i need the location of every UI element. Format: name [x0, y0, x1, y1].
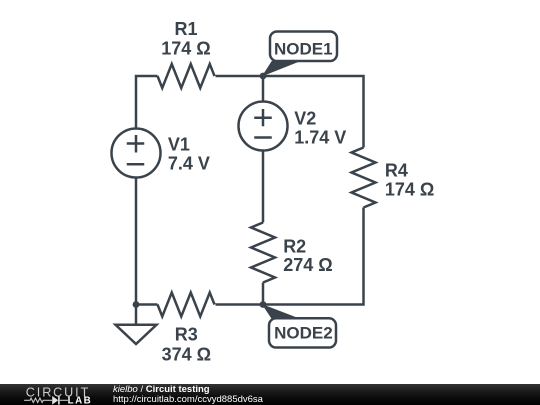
svg-text:V1: V1 — [168, 135, 190, 155]
voltage source V1 — [112, 129, 210, 178]
wire NODE2 to R3 — [216, 303, 264, 306]
wire V2 bottom to R2 top — [262, 151, 265, 223]
junction dot NODE2 — [260, 301, 267, 308]
CircuitLab logo — [0, 383, 100, 405]
wire R3 to left junction — [136, 303, 158, 306]
svg-text:274 Ω: 274 Ω — [283, 255, 332, 275]
wire R4 bottom to bottom-right corner to NODE2 — [263, 208, 364, 305]
footer title text — [113, 385, 263, 405]
svg-text:374 Ω: 374 Ω — [162, 345, 211, 365]
resistor R4 — [352, 148, 435, 208]
voltage source V2 — [239, 102, 347, 151]
resistor R2 — [251, 223, 333, 283]
svg-text:174 Ω: 174 Ω — [161, 39, 210, 59]
svg-text:7.4 V: 7.4 V — [168, 154, 210, 174]
resistor R1 — [158, 19, 215, 88]
svg-text:R4: R4 — [385, 161, 408, 181]
ground — [116, 305, 157, 345]
svg-text:R1: R1 — [174, 19, 197, 39]
svg-text:NODE1: NODE1 — [274, 40, 333, 59]
svg-text:V2: V2 — [294, 109, 316, 129]
node NODE1 — [263, 32, 337, 76]
junction dot ground — [133, 301, 140, 308]
svg-text:R3: R3 — [175, 325, 198, 345]
svg-text:1.74 V: 1.74 V — [294, 128, 346, 148]
wire R1 to NODE1 — [216, 75, 264, 78]
junction dot NODE1 — [260, 73, 267, 80]
wire top-left corner — [136, 76, 158, 129]
svg-text:NODE2: NODE2 — [274, 324, 333, 343]
wire NODE1 to right rail to R4 top — [263, 76, 364, 148]
wire V1 bottom to left junction — [135, 178, 138, 305]
svg-text:LAB: LAB — [68, 395, 93, 405]
resistor R3 — [158, 293, 215, 365]
wire NODE1 to V2 top — [262, 76, 265, 102]
svg-text:R2: R2 — [283, 237, 306, 257]
footer bar — [0, 384, 540, 405]
svg-text:174 Ω: 174 Ω — [385, 179, 434, 199]
node NODE2 — [263, 305, 336, 348]
wire R2 bottom to NODE2 — [262, 283, 265, 305]
